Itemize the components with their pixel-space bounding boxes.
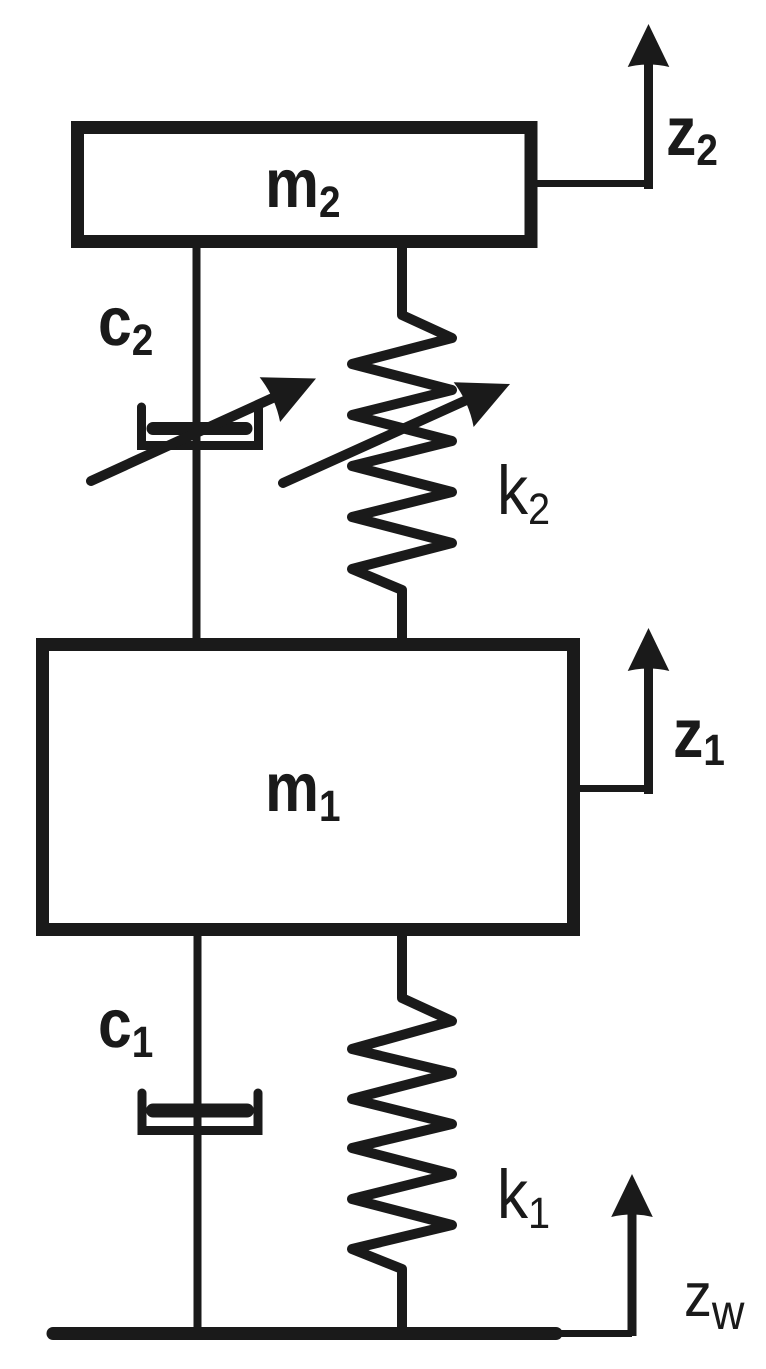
spring k1 <box>352 930 452 1333</box>
damper c2 adjust arrow <box>91 356 326 481</box>
damper c2 cup <box>142 407 259 446</box>
damper c1 cup <box>142 1093 258 1131</box>
damper c2 rod <box>193 242 201 645</box>
label m1 <box>269 774 339 821</box>
label c2 <box>100 308 151 355</box>
mass m1 <box>43 645 574 930</box>
damper c1 rod <box>194 930 202 1333</box>
damper c2 piston <box>153 422 246 435</box>
damper c1 piston <box>153 1104 247 1118</box>
label k1 <box>501 1168 548 1228</box>
label m2 <box>269 170 339 217</box>
label z1 <box>675 721 723 765</box>
arrow z2 <box>628 24 670 189</box>
spring k2 adjust arrow <box>283 362 520 483</box>
label zw <box>686 1283 744 1329</box>
label c1 <box>100 1010 152 1057</box>
wire ground to zw axis <box>556 1330 632 1337</box>
label k2 <box>501 464 548 524</box>
label z2 <box>668 119 716 165</box>
mass m2 <box>78 128 532 242</box>
wire m1 to z1 axis <box>574 785 648 792</box>
ground line <box>53 1327 556 1340</box>
arrow z1 <box>628 628 670 794</box>
arrow zw <box>611 1174 653 1336</box>
wire m2 to z2 axis <box>531 180 648 187</box>
spring k2 <box>352 242 452 645</box>
